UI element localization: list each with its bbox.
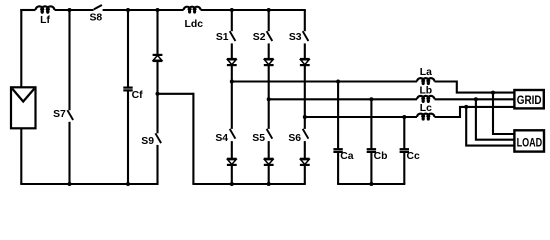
- wire: above diode D: [156, 10, 158, 54]
- wire: leg 2 phase tap to S5: [268, 99, 270, 129]
- GRID box: [514, 90, 543, 108]
- node: Cb tap: [369, 97, 373, 101]
- switch S6 blade: [303, 129, 309, 139]
- node: leg 1 bottom junction: [230, 182, 234, 186]
- wire: stub vertical: [192, 93, 194, 184]
- svg-text:S6: S6: [288, 133, 301, 144]
- switch S8 blade: [94, 5, 102, 9]
- svg-text:Ldc: Ldc: [185, 19, 204, 30]
- wire: phase B bus: [269, 98, 417, 100]
- switch S4 blade: [230, 129, 236, 139]
- node: Cb bottom junction: [369, 182, 373, 186]
- wire: phase B to LOAD: [476, 99, 516, 139]
- wire: capacitor bottom rail: [337, 183, 405, 185]
- wire: leg 3 lower switch-to-diode: [304, 141, 306, 159]
- svg-text:S4: S4: [215, 133, 228, 144]
- wire: leg 1 to bottom rail: [231, 165, 233, 184]
- node: phase tap 2: [267, 97, 271, 101]
- diode of S3: [300, 58, 310, 60]
- wire: top rail between Lf and S8: [55, 9, 94, 11]
- wire: leg 1 phase tap to S4: [231, 82, 233, 129]
- node: Cf bottom junction: [126, 182, 130, 186]
- wire: leg 1 upper: [231, 10, 233, 31]
- wire: phase C bus: [305, 116, 417, 118]
- svg-text:Cb: Cb: [374, 151, 388, 162]
- wire: top rail right segment: [201, 9, 306, 11]
- wire: leg 2 to bottom rail: [268, 165, 270, 184]
- wire: leg 2 diode to phase tap: [268, 65, 270, 99]
- svg-text:Ca: Ca: [340, 151, 354, 162]
- wire: leg 2 lower switch-to-diode: [268, 141, 270, 159]
- svg-text:S3: S3: [289, 32, 302, 43]
- wire: leg 1 switch-to-diode: [231, 43, 233, 59]
- diode of S6: [300, 158, 310, 160]
- svg-text:S5: S5: [252, 133, 265, 144]
- node: leg 2 bottom junction: [267, 182, 271, 186]
- node: Cf top junction: [126, 8, 130, 12]
- node: phase tap 3: [303, 115, 307, 119]
- svg-text:S7: S7: [53, 109, 66, 120]
- switch S5 blade: [267, 129, 273, 139]
- PV panel: [11, 87, 36, 128]
- wire: node to stub: [158, 93, 194, 95]
- wire: phase C to LOAD: [466, 107, 515, 146]
- wire: leg 2 upper: [268, 10, 270, 31]
- inductor La: [417, 78, 424, 81]
- svg-text:GRID: GRID: [517, 93, 542, 107]
- wire: phase A to GRID: [435, 82, 516, 93]
- node: Ca tap: [336, 80, 340, 84]
- node: A-to-LOAD branch: [491, 91, 495, 95]
- wire: leg 1 lower switch-to-diode: [231, 141, 233, 159]
- wire: S7 lower: [68, 122, 70, 184]
- wire: diode D to node: [156, 61, 158, 94]
- inductor Lf: [36, 6, 44, 10]
- svg-text:S8: S8: [89, 13, 102, 24]
- diode D (pointing up): [153, 54, 163, 56]
- diode of S4: [227, 158, 237, 160]
- wire: Cb lower: [370, 153, 372, 184]
- wire: phase A to LOAD: [493, 93, 515, 134]
- wire: leg 3 switch-to-diode: [304, 43, 306, 59]
- node: S7 top junction: [68, 8, 72, 12]
- wire: Cc lower: [403, 153, 405, 184]
- svg-text:Cf: Cf: [132, 90, 144, 101]
- wire: leg 1 diode to phase tap: [231, 65, 233, 81]
- diode of S1: [227, 58, 237, 60]
- svg-text:Cc: Cc: [407, 151, 421, 162]
- switch S1 blade: [230, 31, 236, 41]
- wire: bottom-left rail: [20, 183, 158, 185]
- wire: phase C to GRID: [435, 107, 516, 117]
- node: S7 bottom junction: [68, 182, 72, 186]
- capacitor Ca: [333, 148, 342, 150]
- inductor Lb: [417, 96, 424, 99]
- inductor Ldc: [184, 7, 191, 10]
- wire: top rail left segment: [20, 9, 35, 11]
- wire: PV top lead: [20, 9, 22, 88]
- wire: leg 3 to bottom rail: [304, 165, 306, 184]
- wire: Ca upper: [337, 82, 339, 149]
- wire: phase B to GRID: [435, 98, 516, 100]
- node: B-to-LOAD branch: [474, 97, 478, 101]
- wire: phase A bus: [232, 80, 417, 82]
- wire: Cb upper: [370, 99, 372, 148]
- wire: bottom-right rail: [192, 183, 305, 185]
- svg-text:S2: S2: [253, 32, 266, 43]
- wire: Cf upper: [127, 10, 129, 87]
- wire: PV bottom lead: [20, 128, 22, 184]
- svg-text:S9: S9: [141, 136, 154, 147]
- node: leg 1 top junction: [230, 8, 234, 12]
- wire: top rail between S8 and Ldc: [103, 9, 184, 11]
- svg-text:Lb: Lb: [419, 85, 432, 96]
- wire: leg 3 phase tap to S6: [304, 117, 306, 129]
- wire: Cc upper: [403, 117, 405, 148]
- node: DC link node: [156, 92, 160, 96]
- switch S2 blade: [267, 31, 273, 41]
- wire: S7 upper: [68, 10, 70, 110]
- switch S7 blade: [67, 110, 73, 120]
- node: leg 2 top junction: [267, 8, 271, 12]
- diode of S5: [264, 158, 274, 160]
- switch S9 blade: [155, 133, 161, 143]
- node: C-to-LOAD branch: [464, 105, 468, 109]
- capacitor Cc: [400, 148, 409, 150]
- svg-text:La: La: [420, 67, 432, 78]
- svg-text:Lc: Lc: [420, 103, 432, 114]
- LOAD box: [514, 130, 544, 151]
- wire: Cf lower: [127, 91, 129, 184]
- node: D top junction: [156, 8, 160, 12]
- wire: leg 3 upper: [304, 10, 306, 31]
- svg-text:S1: S1: [216, 32, 229, 43]
- svg-text:Lf: Lf: [40, 15, 50, 26]
- capacitor Cb: [367, 148, 376, 150]
- wire: leg 3 diode to phase tap: [304, 65, 306, 117]
- wire: leg 2 switch-to-diode: [268, 43, 270, 59]
- wire: node to S9: [156, 94, 158, 134]
- switch S3 blade: [303, 31, 309, 41]
- capacitor Cf: [123, 86, 132, 88]
- svg-text:LOAD: LOAD: [517, 135, 543, 149]
- inductor Lc: [417, 114, 424, 117]
- wire: S9 lower: [156, 145, 158, 185]
- wire: Ca lower: [337, 153, 339, 184]
- diode of S2: [264, 58, 274, 60]
- node: phase tap 1: [230, 80, 234, 84]
- node: Cc tap: [402, 115, 406, 119]
